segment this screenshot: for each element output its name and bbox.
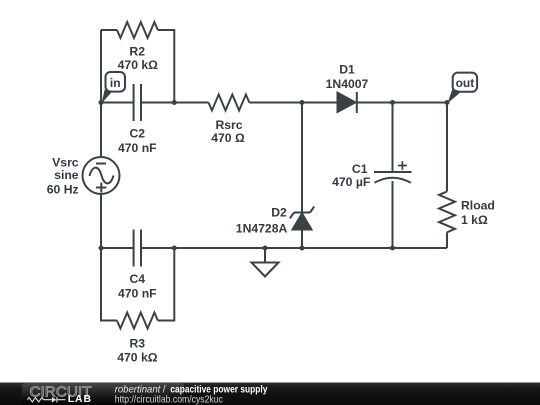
svg-text:http://circuitlab.com/cys2kuc: http://circuitlab.com/cys2kuc xyxy=(115,394,223,405)
diode D1 xyxy=(338,92,357,113)
wire top rail left (node in to R2 top and Vsrc) xyxy=(100,30,102,248)
capacitor C4 xyxy=(134,230,141,267)
ground xyxy=(252,248,279,277)
svg-text:LAB: LAB xyxy=(68,394,92,405)
wire C1 branch top xyxy=(392,103,394,173)
node C2/R2 junction xyxy=(172,100,177,105)
svg-text:R2: R2 xyxy=(129,44,145,58)
capacitor C1 polarized xyxy=(374,161,412,183)
svg-text:Rload: Rload xyxy=(461,199,495,213)
svg-text:470 kΩ: 470 kΩ xyxy=(118,58,158,72)
svg-text:1N4007: 1N4007 xyxy=(326,77,369,91)
svg-text:470 nF: 470 nF xyxy=(118,141,157,155)
node C4/R3 junction xyxy=(172,246,177,251)
flag in xyxy=(102,72,125,103)
svg-text:470 nF: 470 nF xyxy=(118,286,157,300)
flag out xyxy=(448,73,478,104)
node junction dots xyxy=(99,100,450,251)
node Vsrc bottom junction xyxy=(99,246,104,251)
footer bar xyxy=(0,383,540,405)
svg-text:470 kΩ: 470 kΩ xyxy=(117,350,157,364)
wire main top from node in to C2 left plate xyxy=(101,102,134,104)
wire Rload bottom to rail xyxy=(446,232,448,248)
svg-text:D1: D1 xyxy=(339,63,355,77)
resistor R3 xyxy=(117,313,158,329)
svg-text:Rsrc: Rsrc xyxy=(215,118,242,132)
svg-text:1 kΩ: 1 kΩ xyxy=(461,213,488,227)
resistor R2 xyxy=(117,22,158,38)
node C1 top junction xyxy=(390,100,395,105)
wire R3 bottom loop xyxy=(101,248,174,321)
logo CIRCUIT text xyxy=(30,384,92,400)
logo resistor-diode glyph xyxy=(28,397,66,403)
node D2 top junction xyxy=(300,100,305,105)
wire C2 right plate to junction xyxy=(141,102,174,104)
wire R2 top loop xyxy=(101,30,174,103)
capacitor C2 xyxy=(134,84,141,121)
node out junction xyxy=(445,100,450,105)
node C1 bottom junction xyxy=(390,246,395,251)
footer author name xyxy=(115,384,268,405)
logo LAB text xyxy=(68,394,92,405)
svg-text:sine: sine xyxy=(54,168,79,182)
wire junction to Rsrc xyxy=(174,102,208,104)
wire C1 bottom to rail xyxy=(392,181,394,248)
zener diode D2 xyxy=(290,207,314,230)
svg-text:D2: D2 xyxy=(271,206,287,220)
svg-text:in: in xyxy=(110,76,121,90)
wire D2 anode to bottom rail xyxy=(301,230,303,249)
svg-text:1N4728A: 1N4728A xyxy=(236,221,288,235)
svg-text:470 Ω: 470 Ω xyxy=(211,131,245,145)
resistor Rload xyxy=(439,192,455,233)
svg-text:60 Hz: 60 Hz xyxy=(47,183,79,197)
svg-text:out: out xyxy=(456,76,475,90)
resistor Rsrc xyxy=(209,95,250,111)
node in junction xyxy=(99,100,104,105)
svg-text:C2: C2 xyxy=(130,126,146,140)
wire Rsrc to D1 anode with node at D2 branch xyxy=(249,102,336,104)
wire out rail down to Rload xyxy=(446,103,448,192)
wire D2 branch vertical top xyxy=(301,103,303,213)
svg-text:470 µF: 470 µF xyxy=(332,175,370,189)
svg-text:C4: C4 xyxy=(130,272,146,286)
svg-text:R3: R3 xyxy=(130,337,146,351)
voltage source Vsrc xyxy=(83,157,120,194)
wire D1 cathode to out node xyxy=(355,102,447,104)
node D2 bottom junction xyxy=(300,246,305,251)
node ground junction xyxy=(263,246,268,251)
wire bottom rail xyxy=(101,247,447,249)
